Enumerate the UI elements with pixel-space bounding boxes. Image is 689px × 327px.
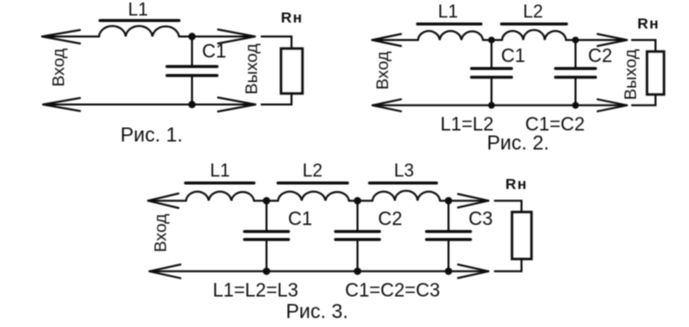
capacitor C2 (fig3): [336, 201, 380, 272]
wire: fig1 top input lead: [42, 36, 99, 38]
node dot top-1 (fig2): [488, 37, 495, 44]
capacitor C2 (fig2): [556, 40, 596, 105]
wire: fig1 load top lead: [262, 37, 292, 49]
svg-text:C1: C1: [202, 42, 226, 63]
node dot bottom (fig1): [188, 101, 195, 108]
output arrow top (fig3): [458, 194, 489, 208]
svg-text:L3: L3: [394, 161, 414, 181]
bar above L2 (fig2): [502, 23, 567, 26]
node dot bottom-1 (fig2): [488, 102, 495, 109]
svg-text:L1: L1: [438, 2, 458, 22]
node dot top-3 (fig3): [445, 197, 452, 204]
svg-text:Rн: Rн: [637, 15, 659, 32]
resistor Rн (fig3): [512, 212, 532, 259]
svg-text:L2: L2: [302, 161, 322, 181]
wire: fig3 load top lead: [495, 201, 522, 212]
wire: fig2 top input lead: [372, 39, 418, 41]
output arrow bottom (fig1): [218, 98, 256, 112]
svg-text:Вход: Вход: [373, 51, 392, 90]
svg-text:Вход: Вход: [49, 48, 68, 87]
inductor L2 (fig3): [278, 192, 349, 201]
svg-text:Рис. 2.: Рис. 2.: [487, 133, 549, 155]
output arrow top (fig2): [598, 34, 628, 46]
svg-text:Rн: Rн: [505, 176, 527, 193]
bar above L1 (fig3): [186, 182, 255, 185]
svg-text:L1: L1: [128, 0, 148, 20]
wire: fig2 node1 segment: [483, 39, 502, 41]
svg-text:L1: L1: [210, 161, 230, 181]
bar above L1 (fig2): [418, 23, 482, 26]
inductor L1 (fig3): [186, 192, 254, 201]
input arrow top (fig2): [372, 34, 401, 46]
wire: fig3 top input lead: [148, 200, 186, 202]
wire: fig1 bottom rail: [43, 104, 256, 106]
wire: fig3 bottom rail: [149, 270, 488, 272]
resistor Rн (fig1): [281, 49, 303, 94]
capacitor C1 (fig2): [472, 40, 512, 105]
bar above L2 (fig3): [278, 182, 348, 185]
node dot top-1 (fig3): [263, 197, 270, 204]
svg-text:C3: C3: [469, 209, 493, 230]
input arrow top (fig1): [42, 30, 80, 44]
svg-text:L1=L2: L1=L2: [440, 115, 493, 136]
wire: fig3 node2 segment: [349, 200, 372, 202]
wire: fig1 top rail, inductor to output arrow: [179, 36, 255, 38]
capacitor C1 (fig3): [245, 201, 289, 272]
svg-text:L2: L2: [523, 2, 543, 22]
svg-text:Рис. 3.: Рис. 3.: [286, 301, 348, 323]
wire: fig1 load bottom lead: [262, 94, 292, 105]
input arrow bottom (fig1): [43, 98, 80, 111]
wire: fig2 load bottom lead: [632, 95, 656, 106]
svg-text:Вход: Вход: [151, 214, 170, 253]
svg-text:Рис. 1.: Рис. 1.: [120, 125, 182, 147]
output arrow top (fig1): [218, 30, 255, 44]
resistor Rн (fig2): [647, 52, 664, 95]
node dot bottom-1 (fig3): [263, 268, 270, 275]
svg-text:Выход: Выход: [242, 43, 261, 94]
inductor L1 (fig2): [418, 31, 483, 40]
node dot bottom-2 (fig2): [572, 102, 579, 109]
bar above L3 (fig3): [370, 182, 437, 185]
node dot top (fig1): [188, 33, 195, 40]
svg-text:L1=L2=L3: L1=L2=L3: [213, 281, 299, 302]
wire: fig3 node1 segment: [254, 200, 278, 202]
svg-text:C2: C2: [378, 209, 402, 230]
capacitor C3 (fig3): [427, 201, 471, 272]
inductor L1 (fig1): [99, 26, 179, 37]
bar above L1 (fig1): [100, 19, 179, 22]
wire: fig3 top rail to output arrow: [440, 200, 489, 202]
wire: fig2 load top lead: [632, 40, 656, 52]
input arrow bottom (fig2): [372, 99, 401, 111]
svg-text:Выход: Выход: [621, 49, 640, 100]
output arrow bottom (fig3): [458, 265, 489, 279]
svg-text:C1: C1: [501, 46, 525, 67]
node dot top-2 (fig2): [572, 37, 579, 44]
input arrow top (fig3): [148, 194, 179, 209]
input arrow bottom (fig3): [149, 265, 180, 279]
inductor L3 (fig3): [372, 191, 440, 201]
node dot bottom-3 (fig3): [445, 268, 452, 275]
capacitor C1 (fig1): [167, 37, 217, 105]
node dot bottom-2 (fig3): [354, 268, 361, 275]
svg-text:Rн: Rн: [281, 10, 303, 27]
svg-text:C1=C2=C3: C1=C2=C3: [345, 281, 440, 302]
output arrow bottom (fig2): [598, 99, 628, 111]
wire: fig2 top rail to output arrow: [566, 39, 627, 41]
wire: fig3 load bottom lead: [495, 259, 522, 271]
wire: fig2 bottom rail: [372, 104, 627, 106]
node dot top-2 (fig3): [354, 197, 361, 204]
svg-text:C2: C2: [588, 46, 612, 67]
svg-text:C1: C1: [288, 209, 312, 230]
inductor L2 (fig2): [502, 30, 566, 40]
